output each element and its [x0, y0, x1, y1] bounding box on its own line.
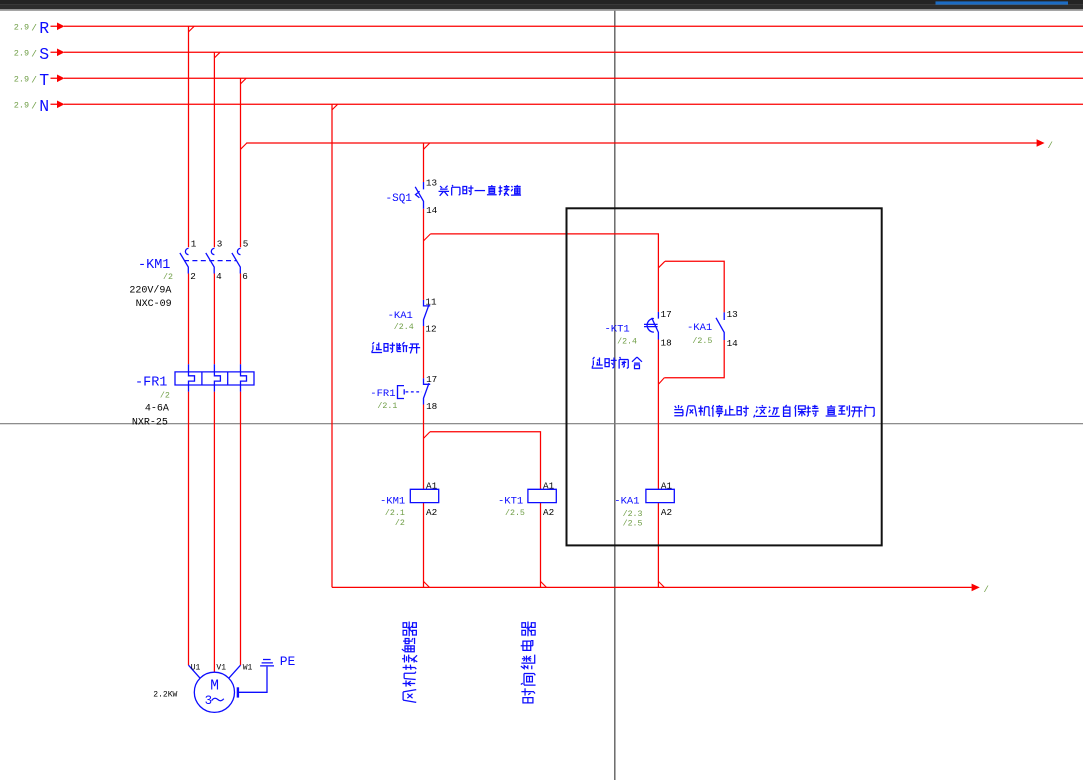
svg-text:/: / — [31, 101, 37, 112]
svg-text:/2.4: /2.4 — [394, 322, 414, 332]
svg-text:A1: A1 — [661, 480, 673, 491]
svg-text:/2: /2 — [160, 390, 170, 400]
svg-text:2.9: 2.9 — [14, 75, 29, 85]
svg-text:/: / — [984, 585, 989, 595]
svg-text:V1: V1 — [216, 664, 226, 673]
svg-text:2: 2 — [190, 271, 196, 282]
svg-text:/2.5: /2.5 — [692, 336, 712, 346]
svg-text:A1: A1 — [426, 480, 438, 491]
svg-text:/2.5: /2.5 — [623, 519, 643, 529]
svg-text:A2: A2 — [661, 507, 672, 518]
svg-text:17: 17 — [661, 309, 672, 320]
svg-text:/: / — [31, 75, 37, 86]
svg-text:A2: A2 — [543, 507, 554, 518]
svg-text:A1: A1 — [543, 480, 555, 491]
svg-text:N: N — [39, 97, 49, 116]
svg-text:2.9: 2.9 — [14, 23, 29, 33]
svg-text:12: 12 — [425, 324, 436, 335]
svg-text:T: T — [39, 71, 49, 90]
svg-text:/2.1: /2.1 — [377, 401, 397, 411]
svg-text:/2.3: /2.3 — [623, 509, 643, 519]
svg-text:14: 14 — [426, 205, 438, 216]
svg-text:13: 13 — [727, 309, 738, 320]
svg-text:18: 18 — [426, 401, 437, 412]
svg-text:-KA1: -KA1 — [388, 310, 413, 322]
svg-text:1: 1 — [191, 239, 197, 250]
svg-text:2.9: 2.9 — [14, 49, 29, 59]
svg-text:-FR1: -FR1 — [135, 376, 167, 391]
svg-text:/2: /2 — [163, 272, 173, 282]
svg-text:-SQ1: -SQ1 — [386, 193, 413, 205]
svg-text:11: 11 — [425, 296, 437, 307]
svg-text:A2: A2 — [426, 507, 437, 518]
svg-text:/: / — [31, 49, 37, 60]
svg-text:18: 18 — [661, 337, 672, 348]
svg-text:14: 14 — [727, 338, 739, 349]
svg-text:NXC-09: NXC-09 — [136, 299, 172, 310]
svg-text:-KA1: -KA1 — [687, 322, 712, 334]
svg-text:2.9: 2.9 — [14, 101, 29, 111]
svg-text:-KT1: -KT1 — [498, 495, 523, 507]
svg-text:-KM1: -KM1 — [138, 258, 170, 273]
svg-text:U1: U1 — [191, 664, 201, 673]
svg-text:R: R — [39, 19, 49, 38]
svg-text:4: 4 — [216, 271, 222, 282]
svg-text:/2.1: /2.1 — [385, 508, 405, 518]
svg-text:-KT1: -KT1 — [605, 324, 630, 336]
svg-text:/2.5: /2.5 — [505, 508, 525, 518]
svg-text:-FR1: -FR1 — [370, 388, 395, 400]
svg-text:-KM1: -KM1 — [380, 495, 405, 507]
svg-text:PE: PE — [280, 654, 296, 669]
svg-text:2.2KW: 2.2KW — [153, 691, 177, 700]
svg-text:220V/9A: 220V/9A — [129, 284, 171, 296]
svg-text:/2: /2 — [395, 518, 405, 528]
svg-text:/: / — [31, 23, 37, 34]
svg-text:S: S — [39, 45, 49, 64]
svg-text:3: 3 — [205, 694, 213, 708]
svg-text:17: 17 — [426, 374, 437, 385]
svg-text:13: 13 — [426, 178, 437, 189]
svg-text:/2.4: /2.4 — [617, 336, 637, 346]
svg-text:6: 6 — [242, 271, 248, 282]
svg-text:3: 3 — [217, 239, 223, 250]
svg-text:NXR-25: NXR-25 — [132, 417, 168, 428]
svg-text:4-6A: 4-6A — [145, 404, 169, 415]
svg-text:-KA1: -KA1 — [614, 495, 639, 507]
svg-text:M: M — [210, 679, 219, 695]
svg-text:W1: W1 — [243, 664, 253, 673]
svg-text:/: / — [1048, 141, 1053, 151]
svg-text:5: 5 — [243, 239, 249, 250]
